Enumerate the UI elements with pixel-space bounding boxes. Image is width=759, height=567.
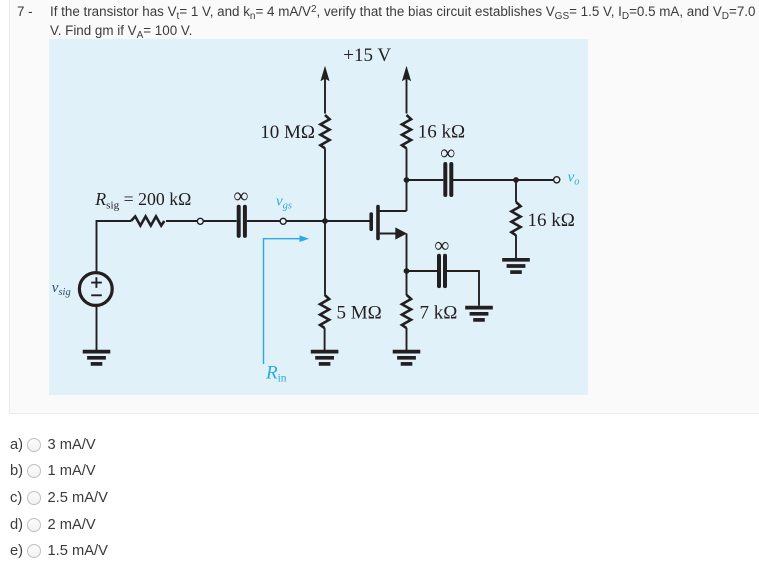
svg-text:16 kΩ: 16 kΩ: [418, 122, 465, 143]
svg-text:∞: ∞: [440, 141, 455, 165]
ground: 16 kΩ load: [502, 260, 530, 272]
wire: 10 MΩ bottom through gate node to 5 MΩ top: [324, 148, 326, 294]
resistor R 7 kΩ: [402, 295, 411, 328]
power +15V supply arrow (10 MΩ branch): [320, 66, 329, 82]
terminal: input open circle: [197, 218, 203, 224]
transistor Q1 source arrowhead: [395, 227, 407, 239]
Rin measurement bracket (cyan): [264, 239, 302, 364]
wire: source horizontal: [380, 233, 399, 235]
svg-text:7 kΩ: 7 kΩ: [420, 302, 458, 323]
svg-text:16 kΩ: 16 kΩ: [528, 210, 575, 231]
wire: output node to 16 kΩ load top: [515, 180, 517, 202]
wire: +15V arrow stem (10 MΩ branch): [324, 74, 326, 114]
wire: 5 MΩ bottom to ground: [324, 328, 326, 351]
capacitor C1 (input coupling, ∞) plates: [239, 207, 245, 236]
wire: input terminal to coupling cap C1: [204, 220, 237, 222]
node: source junction dot: [404, 268, 410, 274]
source vsig minus sign: [91, 294, 102, 296]
resistor Rsig = 200 kΩ: [131, 216, 164, 225]
ground: below 5 MΩ: [311, 352, 339, 364]
wire: C2 right through output node to vo terminal: [453, 179, 554, 181]
wire: C3 right to ground corner: [447, 271, 479, 306]
power +15V supply arrow (16 kΩ branch): [402, 66, 411, 82]
ground: below vsig: [83, 352, 111, 364]
svg-text:10 MΩ: 10 MΩ: [260, 122, 315, 143]
wire: +15V arrow stem (16 kΩ branch): [406, 74, 408, 114]
wire: source node to bypass cap C3: [407, 270, 438, 272]
wire: C1 to vgs terminal: [247, 220, 280, 222]
terminal: vo open circle: [554, 177, 560, 183]
ground: below 7 kΩ: [393, 352, 421, 364]
wire: 16 kΩ load bottom to ground: [515, 235, 517, 258]
wire: drain horizontal: [378, 210, 407, 212]
transistor Q1 gate bar: [369, 214, 373, 229]
wire: source vertical through source node to 7 kΩ: [406, 234, 408, 296]
resistor R 5 MΩ: [320, 295, 329, 328]
wire: vsig to input loop corner: [97, 221, 132, 271]
capacitor C3 (bypass, ∞) plates: [439, 256, 445, 286]
wire: vsig bottom to ground: [96, 306, 98, 350]
node: output junction dot: [513, 177, 519, 183]
wire: Rsig right to input terminal: [166, 220, 197, 222]
svg-text:5 MΩ: 5 MΩ: [337, 302, 382, 323]
source vsig circle: [79, 273, 112, 306]
ground: bypass capacitor: [465, 308, 493, 320]
capacitor C2 (output coupling, ∞) plates: [445, 164, 451, 195]
resistor R 16 kΩ (load): [511, 202, 520, 235]
wire: gate node to transistor gate: [325, 220, 370, 222]
wire: drain node to output cap C2: [407, 179, 444, 181]
transistor Q1 channel bar: [376, 207, 380, 239]
terminal: vgs open circle: [280, 218, 286, 224]
svg-text:∞: ∞: [234, 183, 249, 207]
node: gate junction dot: [322, 218, 328, 224]
wire: 16 kΩ bottom through drain node to drain corner: [406, 148, 408, 211]
svg-text:+15 V: +15 V: [343, 45, 391, 66]
svg-text:∞: ∞: [434, 233, 449, 257]
node: drain junction dot: [404, 177, 410, 183]
wire: vgs terminal to gate node: [286, 220, 325, 222]
resistor R 10 MΩ: [320, 115, 329, 148]
Rin bracket arrowhead: [300, 235, 310, 242]
resistor R 16 kΩ (drain): [402, 115, 411, 148]
wire: 7 kΩ bottom to ground: [406, 328, 408, 351]
source vsig plus sign: [91, 277, 102, 288]
